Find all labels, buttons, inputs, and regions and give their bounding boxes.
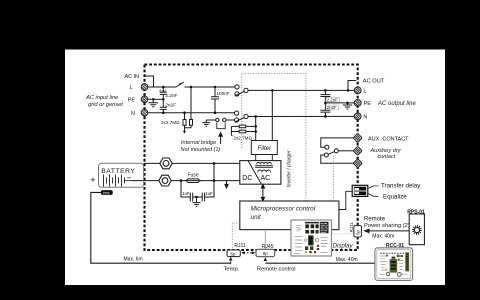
labels output caps <box>326 97 339 110</box>
resistor pair 2x2.7MOhm output <box>231 125 255 136</box>
svg-text:DC: DC <box>242 175 252 182</box>
arrow into remote connector <box>264 257 268 261</box>
wire N input <box>148 112 234 114</box>
svg-text:AC OUT: AC OUT <box>363 79 385 85</box>
battery terminal bolt plus <box>144 158 240 169</box>
arrow minus rail <box>225 181 228 188</box>
terminal AUX 3 <box>353 159 362 168</box>
wire RPS arrow <box>365 229 410 232</box>
wire L input <box>148 86 235 88</box>
transfer relay L contacts <box>235 85 248 96</box>
svg-text:−: − <box>127 173 132 182</box>
svg-text:Internal bridge: Internal bridge <box>181 140 216 146</box>
arrow DCAC-microprocessor <box>261 185 264 201</box>
wire N output <box>248 115 354 117</box>
dashed arrows between connectors <box>241 251 255 254</box>
svg-text:6p: 6p <box>355 229 360 234</box>
svg-text:AC input line: AC input line <box>85 95 118 101</box>
terminal AC IN PE <box>141 96 148 103</box>
callout equalize <box>368 194 378 197</box>
svg-text:2x2.7MΩ: 2x2.7MΩ <box>233 135 252 140</box>
wire L output <box>248 89 354 91</box>
inner dotted box (transfer relay section) <box>242 74 306 202</box>
svg-text:Fuse: Fuse <box>188 173 199 179</box>
fuse F1 <box>185 179 202 183</box>
svg-text:8p: 8p <box>263 251 268 256</box>
terminal AUX 1 <box>353 133 362 142</box>
svg-text:Power sharing (2): Power sharing (2) <box>364 223 410 229</box>
svg-text:Max. 6m: Max. 6m <box>124 256 143 262</box>
wire PE input <box>148 98 163 100</box>
svg-text:L: L <box>363 89 366 95</box>
svg-text:grid or genset: grid or genset <box>88 102 123 108</box>
capacitor 2.2nF L-PE <box>160 87 167 99</box>
svg-text:Max. 40m: Max. 40m <box>336 257 358 263</box>
junction dots <box>152 86 349 133</box>
terminal AUX 2 <box>353 146 362 155</box>
svg-text:Auxiliary dry: Auxiliary dry <box>370 148 402 154</box>
terminal AC IN L <box>141 84 148 91</box>
remote connector 8p <box>256 249 275 256</box>
svg-text:N: N <box>363 115 367 121</box>
svg-text:2n2F: 2n2F <box>165 103 176 109</box>
svg-text:+: + <box>90 175 95 185</box>
RPS 6p connector <box>354 226 362 237</box>
battery terminal bolt minus <box>132 175 240 186</box>
svg-text:Max. 40m: Max. 40m <box>372 234 394 240</box>
callout transfer delay <box>368 186 378 188</box>
ground PE output <box>343 103 352 109</box>
svg-text:6p: 6p <box>231 251 236 256</box>
svg-text:Remote: Remote <box>364 217 386 223</box>
filter box <box>251 141 277 155</box>
transformer T1 <box>255 155 273 173</box>
unit dashed border <box>145 65 358 251</box>
battery cells <box>104 175 132 187</box>
gray link microprocessor to RJ45 <box>264 230 266 250</box>
arrow internal bridge <box>219 133 222 144</box>
svg-text:Display: Display <box>333 242 354 249</box>
svg-text:2n2F: 2n2F <box>327 105 337 110</box>
svg-text:Not mounted (1): Not mounted (1) <box>181 147 221 153</box>
svg-text:unit: unit <box>251 214 262 221</box>
wire AC OUT bracket stub <box>348 81 356 91</box>
svg-text:Transfer delay: Transfer delay <box>381 183 421 190</box>
white diagram sheet <box>65 50 445 286</box>
svg-text:Filter: Filter <box>258 146 272 152</box>
capacitor 100nF <box>211 87 219 113</box>
ground PE input <box>149 99 158 107</box>
transfer relay N contacts <box>235 111 249 122</box>
svg-text:2.2nF: 2.2nF <box>165 93 177 99</box>
internal bridge jumper outline <box>217 123 225 129</box>
wire PE output <box>325 102 354 104</box>
svg-text:PMS: PMS <box>103 191 110 195</box>
arrow into temp connector <box>229 257 233 261</box>
capacitor 2.2nF output L-PE <box>320 90 330 103</box>
svg-text:AC IN: AC IN <box>125 74 139 80</box>
svg-text:Equalize: Equalize <box>383 194 407 201</box>
RCC-01 remote control box <box>375 248 413 281</box>
RPS-01 box <box>409 214 424 245</box>
dotted link display to RPS connector <box>332 233 354 235</box>
svg-text:PE: PE <box>364 101 372 107</box>
svg-text:RJ11: RJ11 <box>234 243 246 249</box>
junction dots battery <box>180 162 216 198</box>
battery outline <box>99 163 144 187</box>
svg-text:contact: contact <box>378 154 396 160</box>
capacitor 1uF left <box>181 181 197 202</box>
terminal AC OUT N <box>354 113 361 120</box>
wire temp sensor cable <box>91 192 231 263</box>
svg-text:2.2nF: 2.2nF <box>327 97 338 102</box>
capacitor 2n2F PE-N <box>160 99 167 112</box>
transfer delay component <box>339 185 368 209</box>
dotted control lines aux relay <box>333 156 335 202</box>
svg-text:Temp.: Temp. <box>224 267 240 273</box>
svg-text:1uF: 1uF <box>205 191 213 196</box>
wire filter L feed <box>271 90 273 140</box>
ground between caps <box>193 197 201 206</box>
terminal AC IN N <box>141 109 148 116</box>
svg-text:Inverter / charger: Inverter / charger <box>287 150 293 187</box>
svg-text:AC output line: AC output line <box>377 101 416 107</box>
capacitor 2n2F output PE-N <box>320 103 330 117</box>
microprocessor box <box>240 201 339 230</box>
internal bridge contacts <box>202 118 234 126</box>
svg-text:100nF: 100nF <box>217 91 230 96</box>
svg-text:8mA: 8mA <box>159 89 167 93</box>
breaker CB1 on L <box>176 82 184 87</box>
wire AC IN bracket stub <box>146 76 154 87</box>
wire RCC cable <box>265 262 375 264</box>
svg-text:2x2.7MΩ: 2x2.7MΩ <box>161 120 180 125</box>
svg-text:L: L <box>130 85 133 91</box>
svg-text:1uF: 1uF <box>182 191 190 196</box>
resistor pair 2x2.7MOhm left <box>183 87 193 131</box>
DC AC converter box <box>240 161 281 185</box>
svg-text:AUX. CONTACT: AUX. CONTACT <box>368 136 409 142</box>
svg-text:AC: AC <box>261 175 271 182</box>
terminal AC OUT L <box>354 87 361 94</box>
temp connector 6p <box>227 250 240 257</box>
arrow chassis left resistors <box>183 130 186 134</box>
svg-text:N: N <box>131 111 135 117</box>
svg-text:RJ11: RJ11 <box>349 222 354 232</box>
aux relay contacts <box>321 138 354 163</box>
wire filter N feed <box>255 117 257 141</box>
display board <box>291 220 332 256</box>
dotted link microprocessor to temp connector <box>232 223 240 250</box>
svg-text:Remote control: Remote control <box>257 266 296 272</box>
temp sensor block <box>101 190 113 195</box>
svg-text:PE: PE <box>128 98 136 104</box>
svg-text:Microprocessor control: Microprocessor control <box>251 205 316 212</box>
terminal AC OUT PE <box>354 100 361 107</box>
capacitor 1uF right <box>197 163 215 201</box>
